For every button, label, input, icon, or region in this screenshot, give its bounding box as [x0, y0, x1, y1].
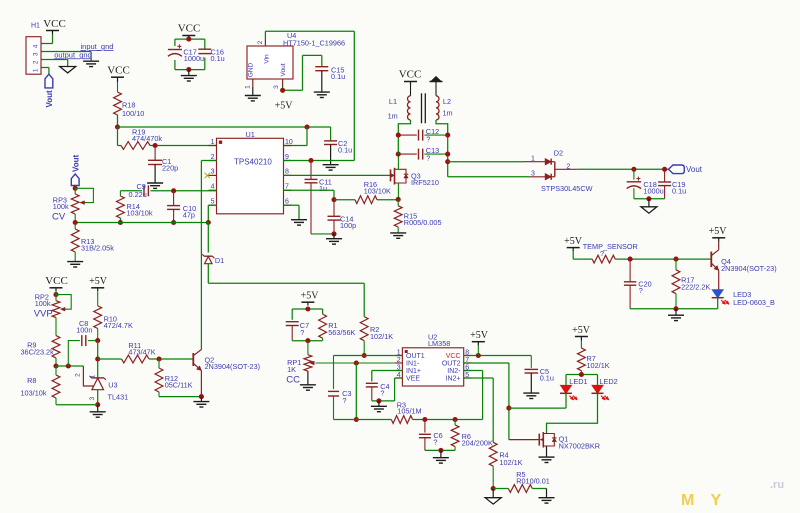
capacitor C17 — [168, 44, 204, 63]
svg-text:1: 1 — [531, 156, 535, 163]
port Vout (output) — [669, 165, 703, 174]
junction R11/R12 — [156, 356, 161, 361]
resistor R2 — [360, 317, 393, 356]
svg-text:100p: 100p — [340, 221, 356, 230]
capacitor C8 — [68, 319, 97, 366]
svg-text:100k: 100k — [35, 299, 51, 308]
svg-text:3: 3 — [89, 396, 96, 400]
diode D1 (zener) — [202, 254, 224, 265]
wire U1 pin8 to Q3 gate — [284, 174, 391, 176]
svg-text:+5V: +5V — [89, 276, 108, 287]
junction C6 top — [422, 417, 427, 422]
svg-text:R005/0.005: R005/0.005 — [404, 218, 442, 227]
svg-text:474/470k: 474/470k — [132, 134, 162, 143]
svg-text:10: 10 — [285, 139, 293, 146]
junction RP2 top — [53, 292, 58, 297]
ground R15 — [390, 233, 406, 238]
svg-text:STPS30L45CW: STPS30L45CW — [541, 184, 593, 193]
wire U4 Vin net — [265, 31, 354, 160]
svg-text:+5V: +5V — [709, 226, 728, 237]
svg-text:1u: 1u — [319, 184, 327, 193]
ground output (open) — [641, 199, 657, 213]
svg-text:LED2: LED2 — [599, 377, 617, 386]
resistor R7 — [578, 341, 610, 375]
junction +5V U2 — [476, 353, 481, 358]
svg-text:1: 1 — [245, 85, 252, 89]
svg-text:3: 3 — [531, 171, 535, 178]
svg-text:VCC: VCC — [107, 65, 130, 77]
wire C4 bottom / VEE — [372, 378, 403, 401]
capacitor C16 — [198, 48, 224, 64]
resistor R16 — [334, 180, 398, 204]
svg-text:TEMP_SENSOR: TEMP_SENSOR — [583, 242, 638, 251]
junction R1 top — [305, 306, 310, 311]
capacitor C3 — [328, 356, 351, 420]
svg-text:2: 2 — [75, 373, 82, 377]
svg-text:+5V: +5V — [470, 330, 489, 341]
junction RP1 top — [305, 338, 310, 343]
potentiometer RP3 — [52, 188, 93, 222]
svg-text:IN2+: IN2+ — [446, 376, 461, 383]
ground Q2 — [193, 397, 209, 407]
svg-text:05C/11K: 05C/11K — [165, 380, 193, 389]
capacitor C6 — [419, 420, 443, 451]
resistor R6 — [451, 420, 493, 451]
svg-text:2: 2 — [566, 163, 570, 170]
junction pin5/D1 — [206, 220, 211, 225]
wire R8/U3 gnd row — [56, 404, 98, 406]
svg-text:2: 2 — [397, 357, 401, 364]
svg-text:GND: GND — [247, 62, 254, 77]
junction R14 bottom — [118, 220, 123, 225]
svg-text:222/2.2K: 222/2.2K — [681, 283, 710, 292]
svg-text:9: 9 — [285, 154, 289, 161]
svg-text:102/1K: 102/1K — [370, 332, 393, 341]
svg-text:8: 8 — [285, 169, 289, 176]
svg-text:1000u: 1000u — [184, 54, 204, 63]
svg-text:2N3904(SOT-23): 2N3904(SOT-23) — [721, 264, 777, 273]
power flag (L2) — [430, 76, 443, 96]
ground Q1 — [539, 446, 555, 463]
wire to D2 pin1 — [448, 161, 546, 163]
wire R9 to U3 ref — [56, 365, 83, 367]
svg-text:Vout: Vout — [71, 154, 80, 172]
svg-text:M Y: M Y — [681, 492, 727, 509]
svg-text:D2: D2 — [554, 148, 563, 157]
junction C12 right — [445, 133, 450, 138]
wire C6/R6 bottom — [425, 449, 455, 451]
junction pin7/R16/C14 — [331, 197, 336, 202]
junction C18 top — [631, 167, 636, 172]
svg-text:100/10: 100/10 — [122, 109, 144, 118]
wire temp row — [615, 258, 711, 260]
net label +5V (U4) — [275, 101, 294, 112]
wire pin5 to D1 — [207, 223, 209, 253]
junction C13 right — [445, 152, 450, 157]
junction C19 top — [662, 167, 667, 172]
svg-text:IRF5210: IRF5210 — [411, 178, 439, 187]
wire Q1 gate — [509, 439, 537, 441]
resistor R11 — [122, 341, 156, 363]
ground R17 — [668, 309, 684, 321]
svg-text:4: 4 — [33, 44, 40, 48]
junction C12 left — [396, 133, 401, 138]
transistor Q4 2N3904 — [711, 242, 776, 290]
resistor R1 — [319, 314, 356, 341]
svg-text:Vin: Vin — [264, 54, 271, 64]
svg-text:+5V: +5V — [564, 236, 583, 247]
power flag +5V (R1) — [301, 291, 320, 306]
power flag +5V (R7) — [572, 325, 591, 341]
svg-text:VEE: VEE — [406, 376, 420, 383]
capacitor C1 — [148, 146, 178, 173]
wire U1 pin6 — [284, 205, 300, 220]
svg-text:.ru: .ru — [770, 479, 784, 491]
resistor R10 — [94, 291, 133, 340]
IC U2 LM358 — [395, 333, 470, 387]
wire OUT2 down — [464, 363, 509, 440]
ground input_gnd — [83, 61, 99, 66]
junction C1 top — [153, 143, 158, 148]
svg-text:1000u: 1000u — [643, 186, 663, 195]
resistor R8 — [21, 366, 60, 405]
LED LED1 — [560, 377, 588, 400]
svg-text:472/4.7K: 472/4.7K — [104, 321, 133, 330]
ground C15 — [314, 71, 330, 98]
power flag +5V (Q4) — [709, 226, 728, 242]
svg-text:5: 5 — [211, 199, 215, 206]
svg-text:LED-0603_B: LED-0603_B — [733, 298, 775, 307]
svg-text:D1: D1 — [215, 256, 224, 265]
ground C14 — [326, 234, 342, 244]
wire OUT1 row — [334, 355, 403, 357]
capacitor C13 — [398, 146, 447, 163]
wire IN1- down — [355, 363, 357, 420]
net label input_gnd — [81, 42, 114, 51]
junction R7 bottom — [579, 372, 584, 377]
svg-text:Vout: Vout — [45, 90, 54, 108]
svg-text:L2: L2 — [443, 97, 451, 106]
port Vout (H1) — [45, 74, 54, 107]
power flag +5V (temp) — [564, 236, 583, 252]
IC U1 TPS40210 — [209, 130, 293, 214]
capacitor C10 — [167, 191, 196, 223]
wire U1 pin2 down — [201, 161, 216, 350]
ground R5 — [539, 489, 555, 504]
svg-text:204/200K: 204/200K — [462, 439, 493, 448]
svg-text:TL431: TL431 — [108, 393, 129, 402]
transistor Q1 NX7002BKR — [537, 432, 600, 451]
junction R17 bottom — [673, 306, 678, 311]
svg-text:+5V: +5V — [275, 101, 294, 112]
resistor R3 — [391, 400, 421, 423]
svg-text:0.1u: 0.1u — [211, 54, 225, 63]
port Vout (RP3) — [71, 154, 80, 185]
capacitor C9 — [129, 182, 149, 199]
ground output_gnd (open) — [60, 67, 76, 73]
svg-text:L1: L1 — [389, 97, 397, 106]
ground C2 — [323, 145, 339, 171]
inductor L1 — [388, 86, 411, 121]
capacitor C15 — [315, 66, 345, 82]
wire R10 to U3 — [97, 341, 99, 378]
wire R11 row left — [98, 358, 122, 360]
svg-text:2: 2 — [211, 154, 215, 161]
wire U4 Vout +5V — [283, 55, 322, 90]
svg-text:?: ? — [426, 135, 430, 144]
junction C10 bottom — [171, 220, 176, 225]
svg-text:U3: U3 — [108, 381, 117, 390]
svg-text:3: 3 — [273, 85, 280, 89]
wire +5V to RT — [573, 252, 592, 260]
svg-text:103/10K: 103/10K — [364, 187, 391, 196]
wire H1 pin2 to output_gnd — [41, 60, 68, 67]
junction U3 anode — [95, 402, 100, 407]
wire L1 to rail — [398, 120, 410, 154]
capacitor C20 — [624, 259, 652, 309]
junction C10 top — [171, 188, 176, 193]
wire R19 branch — [118, 127, 122, 146]
svg-text:100k: 100k — [53, 202, 69, 211]
wire U1 pin9 row — [284, 160, 355, 162]
capacitor C19 — [658, 169, 686, 199]
svg-text:VVP: VVP — [34, 309, 53, 320]
svg-text:105/1M: 105/1M — [397, 407, 421, 416]
junction pin10 branch — [304, 124, 309, 129]
svg-text:HT7150-1_C19966: HT7150-1_C19966 — [283, 38, 345, 47]
resistor R5 — [493, 470, 550, 493]
svg-text:563/56K: 563/56K — [328, 328, 355, 337]
resistor R13 — [71, 223, 114, 262]
svg-text:Vout: Vout — [686, 165, 703, 174]
junction R17 top — [673, 257, 678, 262]
wire D2 to Vout — [577, 168, 668, 170]
resistor R12 — [155, 359, 193, 397]
ground U4 GND — [245, 87, 261, 101]
wire H1 pin3 to input_gnd — [41, 52, 91, 62]
power flag VCC (H1) — [43, 18, 66, 35]
svg-text:0.1u: 0.1u — [672, 186, 686, 195]
ground C6/R6 — [433, 450, 449, 463]
IC U3 TL431 — [75, 366, 129, 402]
wire U1 pin7 — [284, 190, 335, 199]
wire D1 to R2 — [208, 264, 364, 317]
svg-text:103/10k: 103/10k — [127, 209, 153, 218]
svg-text:0.1u: 0.1u — [540, 373, 554, 382]
diode D2 STPS30L45CW — [531, 148, 593, 192]
wire R18 to row — [117, 115, 119, 127]
svg-text:Vout: Vout — [280, 63, 287, 76]
power flag VCC (C17) — [178, 23, 201, 40]
junction output gnd — [646, 196, 651, 201]
svg-text:102/1K: 102/1K — [587, 361, 610, 370]
net label output_gnd — [54, 50, 92, 59]
wire H1 pin4 to VCC — [41, 34, 53, 44]
junction Q2 emitter — [199, 394, 204, 399]
wire LED3 bottom rail — [630, 298, 718, 309]
junction D2 pin1 branch — [445, 159, 450, 164]
svg-text:473/47K: 473/47K — [128, 348, 155, 357]
transformer core — [422, 93, 426, 123]
svg-text:1: 1 — [89, 374, 96, 378]
svg-text:LED1: LED1 — [569, 377, 587, 386]
resistor R9 — [21, 318, 60, 367]
junction C8 branch — [66, 363, 71, 368]
junction R10/C8 — [95, 338, 100, 343]
wire C7/R1 top rail — [292, 309, 322, 320]
resistor R18 — [114, 82, 145, 118]
capacitor C7 — [286, 321, 309, 341]
no-connect pin3 — [205, 173, 211, 178]
svg-text:102/1K: 102/1K — [499, 458, 522, 467]
potentiometer RP2 — [34, 291, 71, 319]
svg-text:VCC: VCC — [45, 275, 68, 287]
ground C5 — [523, 373, 539, 399]
ground R13 — [67, 262, 83, 267]
junction R15 top — [396, 197, 401, 202]
svg-text:100n: 100n — [76, 325, 92, 334]
svg-text:?: ? — [342, 396, 346, 405]
svg-text:1: 1 — [33, 68, 40, 72]
ground U1 pin6 — [291, 220, 307, 225]
junction C20 top — [628, 257, 633, 262]
svg-text:220p: 220p — [162, 163, 178, 172]
capacitor C5 — [525, 356, 554, 383]
LED LED3 — [712, 290, 775, 307]
svg-text:?: ? — [433, 438, 437, 447]
svg-text:?: ? — [300, 328, 304, 337]
svg-text:R010/0.01: R010/0.01 — [516, 477, 550, 486]
ground RP1 — [300, 371, 316, 390]
capacitor C14 — [328, 200, 357, 234]
wire C7/R1 bottom rail — [292, 340, 322, 342]
transistor Q3 IRF5210 — [391, 154, 440, 199]
junction C17 top — [186, 37, 191, 42]
LED LED2 — [592, 377, 618, 400]
svg-text:0.22u: 0.22u — [129, 190, 147, 199]
wire IN2- to R3 row — [464, 371, 483, 420]
ground R4 (open) — [485, 489, 501, 505]
ground U3 — [90, 405, 106, 418]
wire R11 to Q2 base — [149, 358, 193, 360]
ground C17/C16 — [181, 70, 197, 81]
svg-text:VCC: VCC — [446, 353, 461, 360]
wire VCC row U2 — [464, 355, 532, 357]
junction IN1- row — [354, 360, 359, 365]
svg-text:+5V: +5V — [572, 325, 591, 336]
svg-text:NX7002BKR: NX7002BKR — [559, 442, 600, 451]
wire to D2 pin3 — [448, 176, 546, 178]
wire U1 pin4 row — [120, 190, 216, 192]
resistor R14 — [117, 191, 153, 223]
svg-text:VCC: VCC — [43, 18, 66, 30]
wire H1 pin1 to Vout port — [41, 68, 49, 75]
potentiometer RP1 — [286, 341, 402, 386]
svg-text:IN1-: IN1- — [406, 361, 420, 368]
capacitor C18 — [627, 169, 664, 199]
wire LED1 cathode — [565, 393, 567, 408]
wire R12 to Q2 emitter — [159, 396, 201, 398]
wire L2 to rail — [436, 120, 448, 177]
wire IN2+ to R4 — [464, 378, 494, 442]
capacitor C2 — [324, 139, 352, 155]
junction Q3 source — [396, 152, 401, 157]
svg-text:0.1u: 0.1u — [338, 146, 352, 155]
transistor Q2 2N3904 — [193, 350, 260, 397]
svg-text:1m: 1m — [443, 108, 453, 117]
svg-text:TPS40210: TPS40210 — [234, 158, 272, 167]
IC U4 HT7150 — [245, 31, 346, 89]
resistor R4 — [489, 442, 522, 488]
svg-text:31B/2.05k: 31B/2.05k — [81, 244, 114, 253]
junction C4 gnd — [376, 398, 381, 403]
svg-text:4: 4 — [211, 184, 215, 191]
wire LED rail — [566, 375, 598, 386]
svg-text:1: 1 — [211, 139, 215, 146]
svg-text:?: ? — [639, 286, 643, 295]
junction OUT2/LED1 — [506, 406, 511, 411]
svg-text:2: 2 — [33, 60, 40, 64]
svg-text:2: 2 — [257, 40, 264, 44]
svg-text:103/10k: 103/10k — [21, 389, 47, 398]
connector H1 — [26, 23, 41, 75]
svg-text:2N3904(SOT-23): 2N3904(SOT-23) — [205, 362, 261, 371]
power flag VCC (R18) — [107, 65, 130, 83]
wire U3 anode — [97, 390, 99, 405]
capacitor C11 — [305, 161, 335, 234]
watermark MY — [681, 479, 784, 509]
wire U1 pin5 — [208, 205, 216, 222]
junction R6 top — [453, 417, 458, 422]
svg-text:output_gnd: output_gnd — [54, 50, 92, 59]
resistor TEMP_SENSOR — [583, 242, 638, 263]
junction C6 gnd — [438, 448, 443, 453]
ground C1 — [147, 165, 163, 189]
svg-text:LM358: LM358 — [428, 339, 450, 348]
resistor R15 — [394, 199, 441, 233]
junction C11 top — [308, 158, 313, 163]
power flag +5V (U2) — [470, 330, 489, 356]
svg-text:6: 6 — [285, 199, 289, 206]
svg-text:3: 3 — [211, 169, 215, 176]
svg-text:3: 3 — [33, 52, 40, 56]
junction C17 bottom — [186, 67, 191, 72]
power flag VCC (L1) — [399, 69, 422, 86]
svg-text:R8: R8 — [27, 376, 36, 385]
wire Q1 drain — [546, 432, 548, 434]
svg-text:1m: 1m — [388, 112, 398, 121]
capacitor C12 — [398, 127, 447, 144]
junction R11 left — [95, 356, 100, 361]
junction R3 row left — [354, 417, 359, 422]
capacitor C4 — [366, 382, 390, 401]
power flag +5V (R10) — [89, 276, 108, 291]
junction R18 bottom — [115, 124, 120, 129]
svg-text:?: ? — [426, 154, 430, 163]
svg-text:IN1+: IN1+ — [406, 368, 421, 375]
svg-text:47p: 47p — [183, 211, 195, 220]
junction C14 bottom — [331, 231, 336, 236]
wire VDD row y127 — [118, 127, 331, 141]
svg-text:?: ? — [380, 389, 384, 398]
svg-text:CC: CC — [286, 375, 300, 386]
svg-text:OUT2: OUT2 — [442, 361, 461, 368]
svg-text:7: 7 — [285, 184, 289, 191]
svg-text:1K: 1K — [287, 365, 296, 374]
wire pin10 branch — [284, 127, 308, 146]
svg-text:OUT1: OUT1 — [406, 353, 425, 360]
junction RP3 top — [73, 186, 78, 191]
